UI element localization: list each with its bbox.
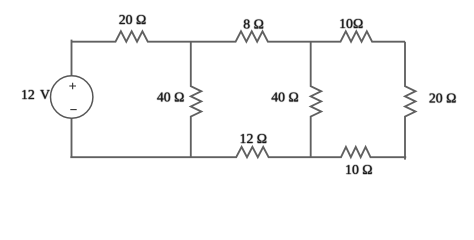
svg-text:10Ω: 10Ω <box>339 16 363 31</box>
svg-text:20 Ω: 20 Ω <box>429 91 457 106</box>
svg-text:20 Ω: 20 Ω <box>119 12 147 27</box>
svg-text:12 V: 12 V <box>21 87 50 102</box>
svg-text:8 Ω: 8 Ω <box>243 16 264 31</box>
svg-text:40 Ω: 40 Ω <box>157 90 185 105</box>
svg-text:40 Ω: 40 Ω <box>271 90 299 105</box>
svg-text:10 Ω: 10 Ω <box>345 162 373 177</box>
svg-text:12 Ω: 12 Ω <box>240 131 268 146</box>
